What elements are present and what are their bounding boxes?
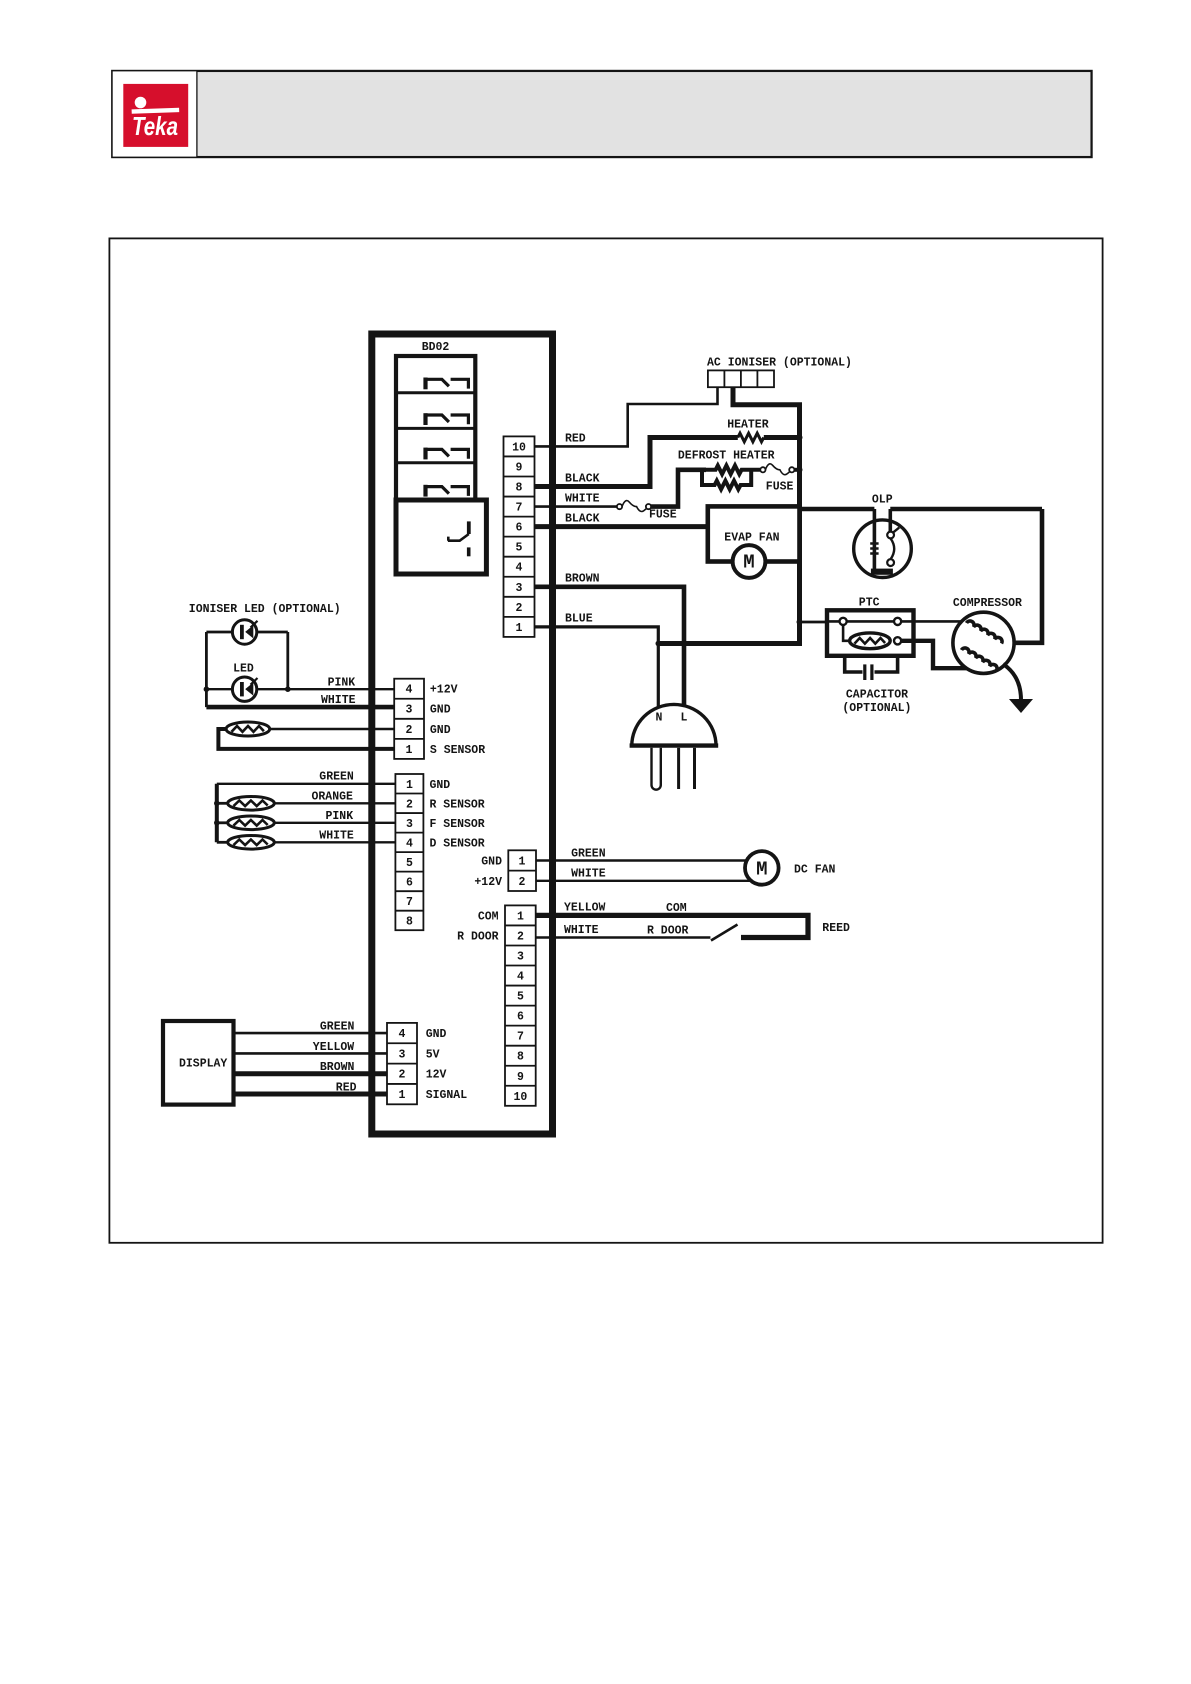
wire YELLOW display [234, 1052, 388, 1055]
wire AC ioniser live to bus [658, 387, 799, 643]
svg-text:BLACK: BLACK [565, 473, 600, 486]
CN4 pin labels [474, 856, 502, 889]
wire BLACK pin6 to evap fan [535, 524, 708, 529]
label CAPACITOR (OPTIONAL) [842, 689, 911, 716]
wire WHITE pin4 [274, 841, 395, 843]
ground symbol [1009, 699, 1033, 713]
PTC relay [827, 610, 914, 656]
AC ioniser connector [708, 370, 774, 387]
junction dot ptc-bus [797, 619, 803, 625]
compressor [953, 612, 1014, 673]
sensor bus vertical [215, 784, 219, 843]
OLP wire [800, 507, 1043, 512]
dc fan motor [745, 851, 779, 885]
svg-text:1: 1 [517, 910, 524, 923]
svg-text:PINK: PINK [328, 677, 356, 690]
svg-text:WHITE: WHITE [321, 694, 356, 707]
svg-text:WHITE: WHITE [564, 924, 599, 937]
svg-text:BD02: BD02 [422, 341, 450, 354]
relay contact 1 [423, 378, 468, 390]
junction dot F [214, 820, 220, 826]
svg-text:2: 2 [519, 876, 526, 889]
CN6 pin numbers [399, 1028, 406, 1102]
connector CN1 10-pin box [504, 436, 535, 637]
svg-text:M: M [743, 552, 754, 574]
svg-text:DEFROST HEATER: DEFROST HEATER [678, 450, 775, 463]
CN2 pin labels [430, 684, 485, 757]
power switch contact [448, 521, 471, 556]
svg-text:3: 3 [517, 951, 524, 964]
svg-text:PTC: PTC [859, 597, 880, 610]
svg-text:(OPTIONAL): (OPTIONAL) [842, 702, 911, 715]
ioniser LED D1 [232, 620, 257, 644]
wire RED display [234, 1092, 388, 1097]
capacitor circuit wire [845, 656, 898, 672]
svg-text:12V: 12V [426, 1069, 447, 1082]
svg-text:5: 5 [516, 542, 523, 555]
heater resistor [738, 433, 764, 442]
header box [112, 71, 1092, 158]
svg-text:Teka: Teka [132, 111, 178, 141]
svg-text:IONISER LED (OPTIONAL): IONISER LED (OPTIONAL) [189, 603, 341, 616]
svg-text:WHITE: WHITE [571, 868, 606, 881]
wire BROWN pin3 to plug L [535, 587, 684, 707]
svg-text:3: 3 [406, 818, 413, 831]
wire heater to bus [764, 435, 802, 440]
CN2 pin numbers [406, 684, 413, 757]
connector CN6 display 4-pin [387, 1023, 417, 1104]
svg-text:6: 6 [516, 522, 523, 535]
svg-text:1: 1 [406, 744, 413, 757]
svg-text:GND: GND [481, 856, 502, 869]
CN6 pin labels [426, 1028, 468, 1102]
svg-text:7: 7 [517, 1031, 524, 1044]
svg-text:GREEN: GREEN [320, 1021, 355, 1034]
wire WHITE pin7 [535, 505, 619, 508]
svg-text:L: L [681, 712, 688, 725]
wire PTC to compressor start [901, 641, 966, 668]
mains plug [630, 704, 719, 789]
svg-text:6: 6 [517, 1011, 524, 1024]
svg-text:ORANGE: ORANGE [312, 791, 354, 804]
wire BLACK pin8 to heater [535, 438, 738, 487]
diagram frame [109, 238, 1102, 1242]
D sensor thermistor [217, 836, 274, 850]
svg-text:+12V: +12V [474, 876, 502, 889]
wire S sensor loop to pin1 [218, 729, 394, 749]
wire GREEN dc fan [536, 859, 747, 861]
svg-text:CAPACITOR: CAPACITOR [846, 689, 908, 702]
display box [163, 1021, 234, 1105]
connector CN2 4-pin [394, 679, 424, 759]
svg-text:LED: LED [233, 663, 254, 676]
svg-text:9: 9 [516, 462, 523, 475]
relay contact 4 [423, 485, 468, 497]
svg-text:BROWN: BROWN [565, 573, 600, 586]
svg-text:3: 3 [399, 1048, 406, 1061]
svg-text:RED: RED [336, 1082, 357, 1095]
wire BROWN display [234, 1071, 388, 1076]
svg-text:4: 4 [516, 562, 523, 575]
svg-text:7: 7 [406, 896, 413, 909]
svg-text:GREEN: GREEN [319, 771, 354, 784]
svg-text:8: 8 [516, 482, 523, 495]
svg-text:5: 5 [406, 857, 413, 870]
svg-text:RED: RED [565, 433, 586, 446]
OLP protector [854, 509, 912, 578]
svg-text:GREEN: GREEN [571, 848, 606, 861]
wire GREEN pin1 [217, 783, 396, 785]
relay contact 3 [423, 448, 468, 460]
svg-text:4: 4 [517, 971, 524, 984]
CN1 pin numbers [512, 441, 526, 635]
svg-text:2: 2 [516, 602, 523, 615]
svg-text:EVAP FAN: EVAP FAN [724, 532, 779, 545]
svg-text:R DOOR: R DOOR [457, 931, 499, 944]
svg-text:S SENSOR: S SENSOR [430, 744, 485, 757]
S sensor thermistor [226, 722, 270, 736]
wire GREEN display [234, 1032, 388, 1035]
svg-text:R DOOR: R DOOR [647, 925, 689, 938]
wire S sensor to pin2 [270, 728, 395, 730]
svg-text:F SENSOR: F SENSOR [430, 818, 485, 831]
svg-text:10: 10 [512, 441, 526, 454]
svg-text:+12V: +12V [430, 684, 458, 697]
connector CN4 dc fan 2-pin [508, 850, 536, 891]
junction dot led right [285, 686, 291, 692]
svg-text:3: 3 [406, 704, 413, 717]
svg-text:AC IONISER (OPTIONAL): AC IONISER (OPTIONAL) [707, 357, 852, 370]
evap fan motor [733, 545, 766, 578]
svg-text:1: 1 [399, 1089, 406, 1102]
wire bus to PTC [800, 621, 828, 624]
junction dot heater-bus [797, 435, 803, 441]
svg-text:4: 4 [399, 1028, 406, 1041]
junction dot led left [204, 686, 210, 692]
relay contact 2 [423, 413, 468, 425]
svg-text:GND: GND [430, 704, 451, 717]
svg-text:D SENSOR: D SENSOR [430, 837, 485, 850]
svg-text:2: 2 [406, 798, 413, 811]
R sensor thermistor [217, 797, 274, 811]
svg-text:REED: REED [822, 922, 850, 935]
svg-text:HEATER: HEATER [727, 419, 769, 432]
svg-text:DISPLAY: DISPLAY [179, 1058, 227, 1071]
svg-text:5: 5 [517, 991, 524, 1004]
connector CN5 10-pin box [505, 905, 536, 1105]
power switch box [396, 500, 486, 574]
svg-text:1: 1 [406, 779, 413, 792]
svg-text:2: 2 [517, 931, 524, 944]
fuse F2 defrost [760, 464, 794, 475]
CN5 pin labels [457, 910, 499, 943]
svg-text:M: M [756, 859, 767, 881]
svg-text:SIGNAL: SIGNAL [426, 1089, 468, 1102]
CN4 pin numbers [519, 856, 526, 889]
wire WHITE dc fan [536, 880, 752, 882]
svg-text:5V: 5V [426, 1048, 440, 1061]
svg-text:4: 4 [406, 684, 413, 697]
svg-text:2: 2 [406, 724, 413, 737]
ioniser LED loop wires [206, 632, 287, 707]
svg-text:6: 6 [406, 876, 413, 889]
defrost heater resistor lower branch [702, 470, 751, 490]
LED D2 [232, 677, 257, 701]
wire OLP to compressor right [1014, 509, 1044, 643]
CN5 pin numbers [513, 910, 527, 1103]
Teka logo [123, 84, 188, 147]
svg-text:WHITE: WHITE [565, 493, 600, 506]
svg-text:FUSE: FUSE [649, 509, 677, 522]
wire WHITE pin3 [206, 705, 394, 710]
wire PINK pin3 [274, 822, 395, 824]
svg-text:GND: GND [426, 1028, 447, 1041]
svg-text:N: N [656, 712, 663, 725]
reed switch blade [711, 925, 738, 941]
svg-text:PINK: PINK [326, 810, 354, 823]
svg-text:9: 9 [517, 1071, 524, 1084]
svg-text:COMPRESSOR: COMPRESSOR [953, 597, 1022, 610]
svg-text:DC FAN: DC FAN [794, 864, 836, 877]
junction dot defrost-bus [797, 467, 803, 473]
wire YELLOW reed com [536, 915, 808, 937]
svg-text:1: 1 [519, 856, 526, 869]
wire PTC to compressor main [914, 620, 963, 623]
fuse F1 on white wire [617, 501, 651, 512]
svg-text:R SENSOR: R SENSOR [430, 798, 485, 811]
wire PINK pin4 [206, 688, 394, 690]
CN3 pin numbers [406, 779, 413, 929]
svg-text:8: 8 [517, 1051, 524, 1064]
defrost heater resistor upper [706, 466, 760, 475]
svg-text:OLP: OLP [872, 494, 893, 507]
svg-text:YELLOW: YELLOW [313, 1041, 355, 1054]
svg-text:BLACK: BLACK [565, 513, 600, 526]
svg-text:GND: GND [430, 779, 451, 792]
svg-text:FUSE: FUSE [766, 481, 794, 494]
wire fuse2 to bus [794, 468, 802, 472]
wire RED pin10 to AC ioniser [535, 387, 718, 446]
compressor ground wire [1003, 664, 1021, 700]
control board box BD02 [372, 334, 553, 1134]
evap fan box [708, 506, 800, 561]
svg-text:4: 4 [406, 837, 413, 850]
junction dot R [214, 801, 220, 807]
wire fuse to defrost heater [651, 470, 706, 507]
svg-text:WHITE: WHITE [319, 830, 354, 843]
wire BLUE pin1 to plug N [535, 627, 658, 708]
svg-text:GND: GND [430, 724, 451, 737]
svg-text:BROWN: BROWN [320, 1061, 355, 1074]
svg-text:3: 3 [516, 582, 523, 595]
svg-text:2: 2 [399, 1069, 406, 1082]
relay block frame [396, 356, 475, 500]
svg-text:8: 8 [406, 915, 413, 928]
wire WHITE reed [536, 936, 711, 938]
svg-text:COM: COM [478, 910, 499, 923]
svg-text:COM: COM [666, 902, 687, 915]
wire ORANGE pin2 [274, 802, 395, 804]
svg-text:7: 7 [516, 502, 523, 515]
junction dot blue-N wire [656, 641, 662, 647]
connector CN3 8-pin [395, 774, 423, 930]
svg-text:10: 10 [513, 1091, 527, 1104]
svg-text:YELLOW: YELLOW [564, 902, 606, 915]
F sensor thermistor [217, 816, 274, 830]
svg-text:BLUE: BLUE [565, 613, 593, 626]
CN3 pin labels [430, 779, 485, 851]
capacitor C1 [863, 664, 873, 680]
svg-text:1: 1 [516, 622, 523, 635]
